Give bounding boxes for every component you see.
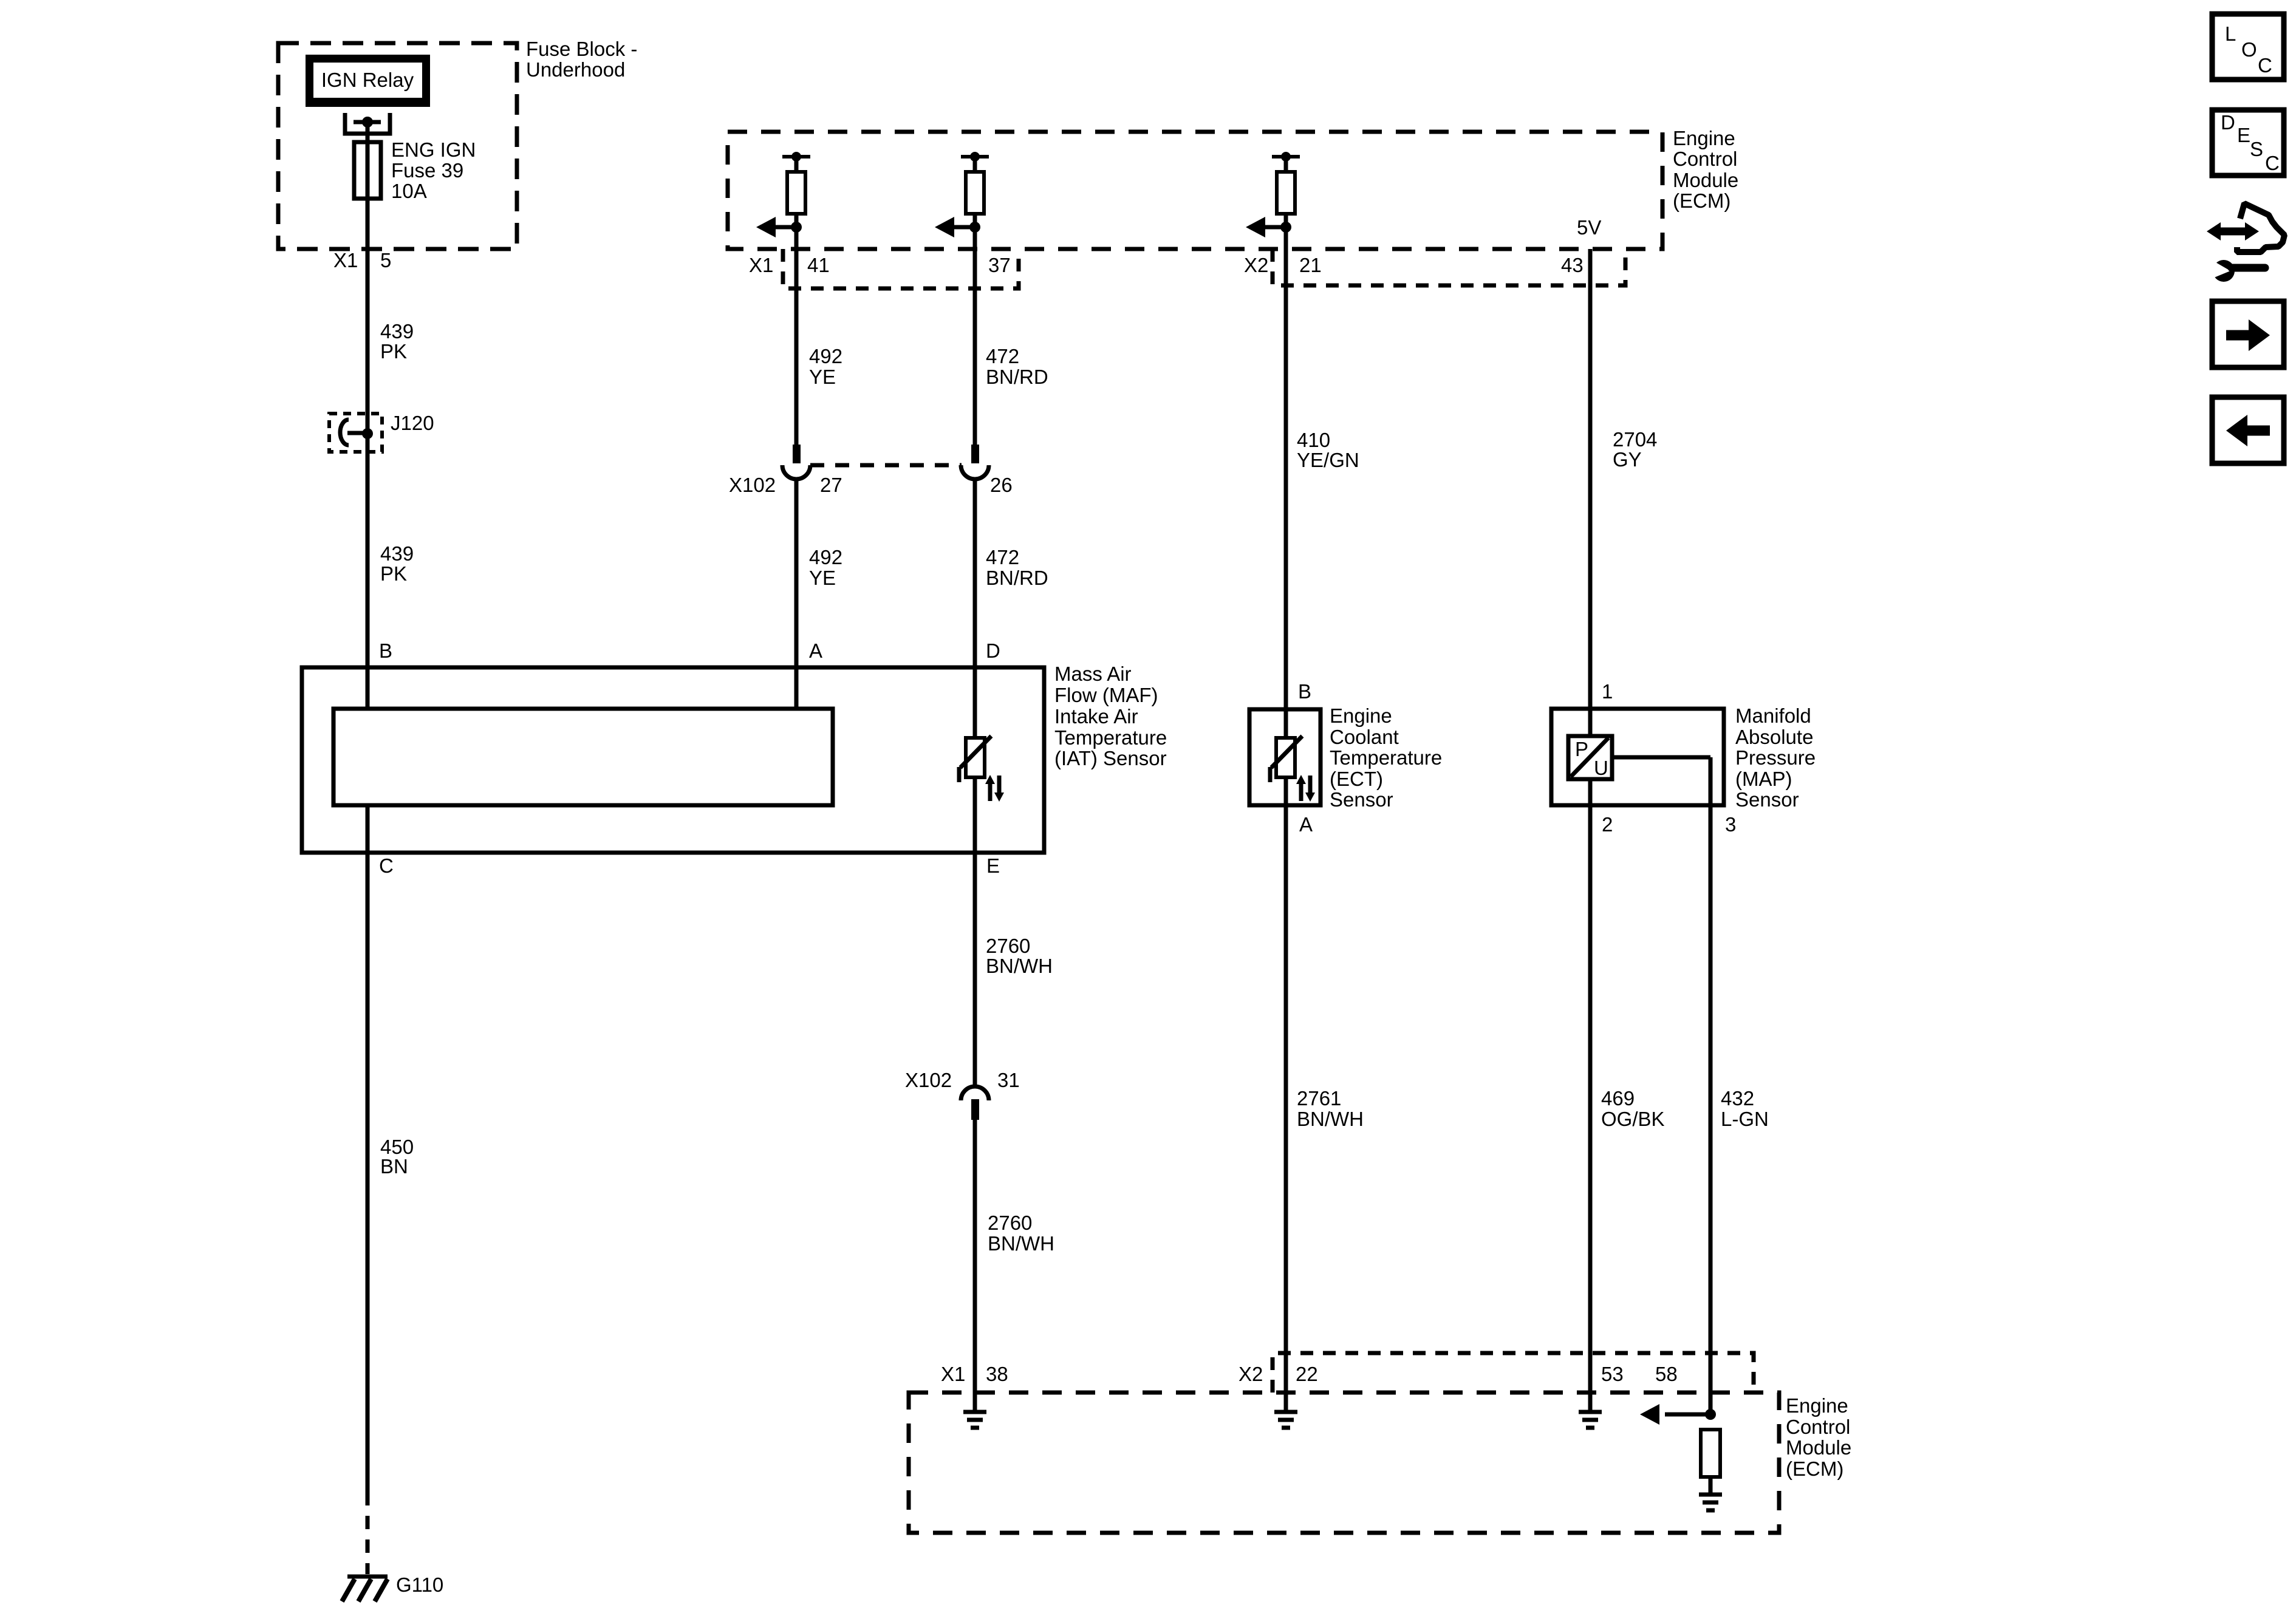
- svg-text:YE/GN: YE/GN: [1297, 449, 1359, 471]
- svg-text:2761: 2761: [1297, 1087, 1341, 1110]
- svg-text:D: D: [986, 639, 1000, 662]
- svg-text:BN/WH: BN/WH: [1297, 1108, 1364, 1130]
- svg-text:O: O: [2241, 38, 2257, 61]
- svg-text:Pressure: Pressure: [1735, 746, 1816, 769]
- svg-text:432: 432: [1721, 1087, 1754, 1110]
- svg-text:PK: PK: [380, 562, 407, 585]
- svg-text:22: 22: [1296, 1363, 1318, 1385]
- svg-text:492: 492: [809, 345, 842, 367]
- svg-text:C: C: [2258, 54, 2272, 77]
- svg-text:BN/WH: BN/WH: [988, 1232, 1054, 1255]
- svg-text:469: 469: [1601, 1087, 1635, 1110]
- svg-text:(IAT) Sensor: (IAT) Sensor: [1054, 747, 1167, 769]
- svg-text:38: 38: [986, 1363, 1008, 1385]
- svg-text:10A: 10A: [391, 180, 427, 202]
- svg-text:472: 472: [986, 345, 1019, 367]
- svg-text:IGN Relay: IGN Relay: [321, 69, 414, 91]
- svg-text:D: D: [2221, 111, 2235, 134]
- svg-text:Mass Air: Mass Air: [1054, 663, 1132, 685]
- svg-text:Underhood: Underhood: [526, 58, 625, 81]
- svg-text:5: 5: [380, 249, 391, 271]
- svg-text:G110: G110: [396, 1573, 443, 1596]
- svg-text:1: 1: [1602, 680, 1613, 703]
- svg-text:X102: X102: [729, 474, 776, 496]
- svg-text:492: 492: [809, 546, 842, 568]
- svg-text:53: 53: [1601, 1363, 1624, 1385]
- svg-text:(ECT): (ECT): [1330, 768, 1383, 790]
- svg-text:P: P: [1575, 738, 1588, 760]
- svg-text:Manifold: Manifold: [1735, 704, 1811, 727]
- svg-text:Sensor: Sensor: [1330, 788, 1393, 811]
- svg-text:21: 21: [1299, 254, 1322, 276]
- svg-text:2760: 2760: [986, 935, 1030, 957]
- svg-text:E: E: [2237, 124, 2250, 146]
- svg-text:E: E: [986, 854, 1000, 877]
- svg-text:PK: PK: [380, 340, 407, 363]
- svg-text:Control: Control: [1673, 148, 1737, 170]
- svg-text:BN/RD: BN/RD: [986, 567, 1048, 589]
- svg-text:Temperature: Temperature: [1054, 726, 1167, 749]
- svg-text:439: 439: [380, 320, 414, 343]
- svg-text:Fuse Block -: Fuse Block -: [526, 38, 637, 60]
- svg-text:X1: X1: [941, 1363, 965, 1385]
- svg-text:(ECM): (ECM): [1786, 1457, 1843, 1480]
- svg-text:Flow (MAF): Flow (MAF): [1054, 684, 1158, 706]
- svg-text:(MAP): (MAP): [1735, 768, 1792, 790]
- svg-text:31: 31: [997, 1069, 1020, 1091]
- svg-text:YE: YE: [809, 567, 836, 589]
- svg-text:Intake Air: Intake Air: [1054, 705, 1138, 728]
- svg-text:X1: X1: [749, 254, 773, 276]
- svg-text:Temperature: Temperature: [1330, 746, 1442, 769]
- svg-text:3: 3: [1725, 813, 1736, 836]
- svg-text:472: 472: [986, 546, 1019, 568]
- svg-text:L-GN: L-GN: [1721, 1108, 1769, 1130]
- svg-text:X2: X2: [1239, 1363, 1263, 1385]
- svg-text:Coolant: Coolant: [1330, 726, 1399, 748]
- svg-text:58: 58: [1655, 1363, 1678, 1385]
- svg-text:J120: J120: [391, 412, 434, 434]
- svg-text:C: C: [379, 854, 394, 877]
- svg-text:A: A: [1299, 813, 1313, 836]
- svg-text:U: U: [1594, 757, 1608, 779]
- svg-text:43: 43: [1561, 254, 1584, 276]
- svg-text:(ECM): (ECM): [1673, 189, 1731, 212]
- svg-text:2760: 2760: [988, 1212, 1032, 1234]
- svg-text:439: 439: [380, 542, 414, 565]
- svg-text:Engine: Engine: [1673, 127, 1735, 149]
- svg-text:Module: Module: [1786, 1436, 1851, 1459]
- svg-text:A: A: [809, 639, 822, 662]
- svg-text:L: L: [2225, 22, 2236, 45]
- svg-text:Control: Control: [1786, 1416, 1850, 1438]
- svg-text:OG/BK: OG/BK: [1601, 1108, 1665, 1130]
- svg-text:2704: 2704: [1613, 428, 1657, 451]
- svg-text:BN/WH: BN/WH: [986, 955, 1053, 977]
- svg-text:C: C: [2265, 152, 2280, 174]
- svg-text:Engine: Engine: [1330, 704, 1392, 727]
- svg-text:41: 41: [807, 254, 830, 276]
- svg-text:B: B: [379, 639, 392, 662]
- svg-text:410: 410: [1297, 429, 1330, 451]
- svg-text:Engine: Engine: [1786, 1394, 1848, 1417]
- svg-text:X102: X102: [905, 1069, 952, 1091]
- svg-text:Module: Module: [1673, 169, 1738, 191]
- svg-text:27: 27: [820, 474, 842, 496]
- svg-text:GY: GY: [1613, 448, 1642, 471]
- svg-text:Absolute: Absolute: [1735, 726, 1813, 748]
- svg-text:26: 26: [990, 474, 1013, 496]
- svg-text:S: S: [2250, 138, 2263, 160]
- svg-text:BN: BN: [380, 1155, 408, 1178]
- svg-text:5V: 5V: [1577, 216, 1601, 239]
- svg-text:2: 2: [1602, 813, 1613, 836]
- svg-text:ENG IGN: ENG IGN: [391, 138, 476, 161]
- svg-text:Sensor: Sensor: [1735, 788, 1799, 811]
- svg-text:X1: X1: [333, 249, 358, 271]
- svg-text:37: 37: [988, 254, 1011, 276]
- svg-text:YE: YE: [809, 366, 836, 388]
- svg-text:Fuse 39: Fuse 39: [391, 159, 463, 182]
- svg-text:B: B: [1298, 680, 1311, 703]
- svg-text:X2: X2: [1244, 254, 1268, 276]
- svg-text:BN/RD: BN/RD: [986, 366, 1048, 388]
